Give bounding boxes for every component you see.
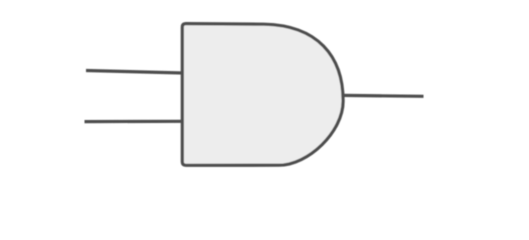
AND gate U1 — [182, 24, 343, 166]
wire output — [342, 94, 424, 98]
wire input B — [85, 120, 184, 123]
wire input A — [86, 71, 183, 74]
